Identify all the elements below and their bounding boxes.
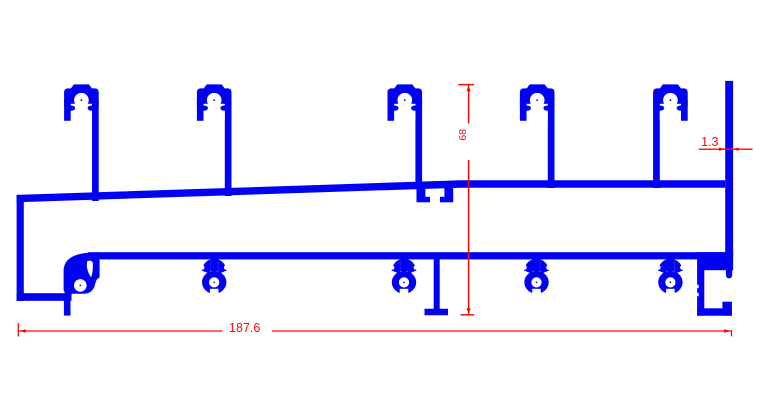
- screw boss 4: [520, 84, 555, 188]
- C-channel bottom arm: [697, 308, 732, 315]
- svg-text:1.3: 1.3: [701, 135, 718, 149]
- dimension 68 (vertical): [457, 85, 474, 315]
- right junction block: [697, 252, 733, 270]
- svg-text:187.6: 187.6: [229, 321, 260, 335]
- screw boss 1: [64, 84, 99, 201]
- left wall: [17, 195, 24, 301]
- omega clip 3: [522, 255, 551, 297]
- dimension 187.6 (horizontal): [18, 321, 731, 337]
- lower web: [88, 252, 733, 259]
- bottom-left flange: [17, 293, 72, 301]
- screw boss 5 (mirrored): [653, 84, 688, 188]
- bottom-left stub leg: [64, 293, 71, 315]
- screw boss 2: [197, 84, 232, 196]
- omega clip 2: [390, 255, 419, 297]
- C-channel spine: [697, 270, 704, 316]
- screw boss 3: [388, 84, 423, 189]
- T-foot: [425, 256, 449, 315]
- C-channel up-hook: [722, 302, 732, 316]
- svg-text:68: 68: [457, 129, 469, 141]
- omega clip 1: [200, 255, 229, 297]
- curl hook (left web end): [64, 252, 100, 294]
- right wall stub: [726, 270, 732, 278]
- top surface (slanted web): [17, 180, 726, 202]
- dimension 1.3 (wall thickness): [699, 135, 753, 151]
- omega clip 4: [656, 255, 685, 297]
- right wall: [725, 81, 733, 256]
- pocket channel under top surface: [417, 186, 454, 202]
